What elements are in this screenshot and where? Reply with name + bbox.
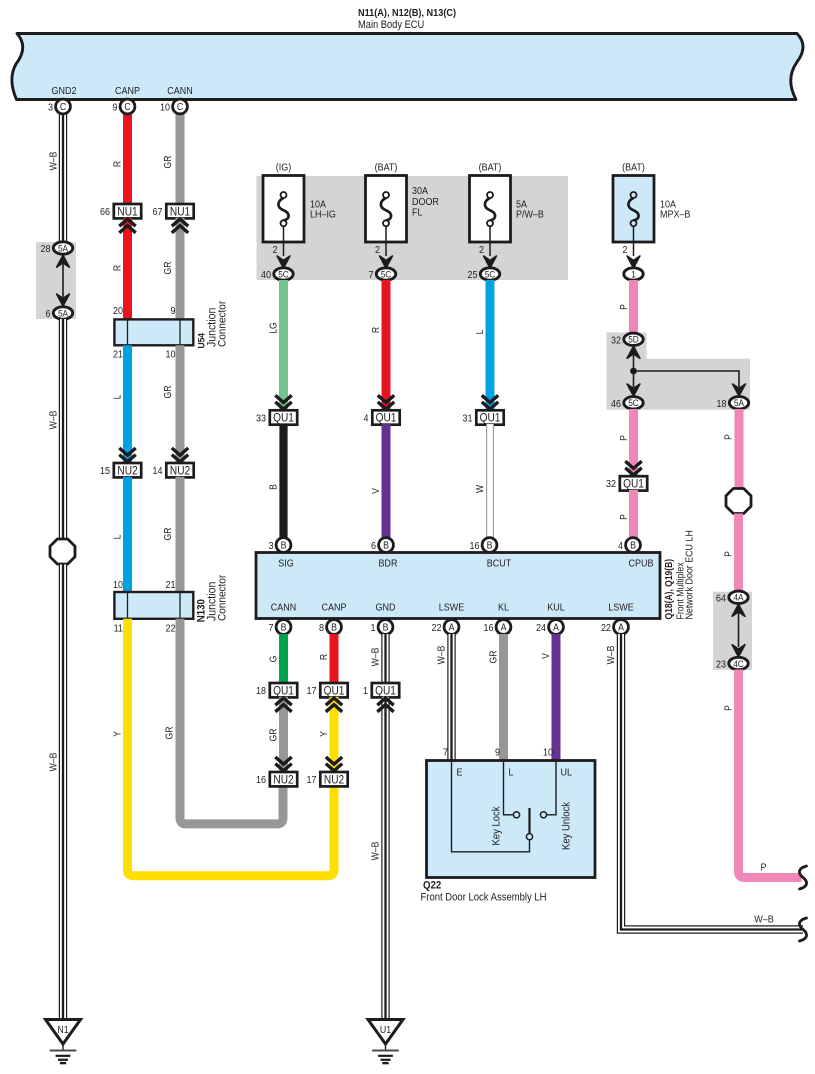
chevron arrows up below NU1 xyxy=(172,219,188,233)
svg-text:P: P xyxy=(619,304,630,310)
svg-text:V: V xyxy=(541,652,552,659)
link line from junction dot right and down to 18 5A xyxy=(634,371,740,387)
ECU label CANP xyxy=(322,602,347,614)
wire label R xyxy=(112,161,123,168)
svg-text:20: 20 xyxy=(113,306,123,318)
ECU label GND xyxy=(376,602,396,614)
ECU pin 4 B CPUB xyxy=(618,538,640,553)
svg-text:KL: KL xyxy=(498,602,510,614)
svg-text:5D: 5D xyxy=(628,334,639,345)
label 10A MPX-B xyxy=(660,199,690,221)
svg-text:33: 33 xyxy=(256,413,266,425)
ECU pin 1 B GND xyxy=(371,620,393,635)
svg-text:8: 8 xyxy=(319,623,324,635)
connector 7 5C oval xyxy=(369,268,396,281)
fuse 5A P/W-B xyxy=(470,176,511,257)
label (BAT) xyxy=(622,162,645,174)
connector 18 5A oval xyxy=(717,397,749,410)
svg-text:L: L xyxy=(112,535,123,540)
ECU pin 22 A LSWE xyxy=(432,620,459,635)
svg-text:30A: 30A xyxy=(412,185,429,197)
svg-text:P: P xyxy=(723,434,734,440)
svg-text:22: 22 xyxy=(601,623,611,635)
svg-text:NU1: NU1 xyxy=(117,206,137,219)
svg-text:32: 32 xyxy=(606,479,616,491)
svg-text:1: 1 xyxy=(631,269,636,280)
wire label W-B xyxy=(48,411,59,430)
svg-text:W–B: W–B xyxy=(370,648,381,667)
fuse 10A MPX-B xyxy=(613,176,654,257)
svg-text:V: V xyxy=(371,487,382,494)
wire label Y xyxy=(319,731,330,737)
label 5A P/W-B xyxy=(516,199,544,221)
Q22 internal wire E to switch common xyxy=(452,761,530,852)
svg-text:Main Body ECU: Main Body ECU xyxy=(358,20,424,32)
label (BAT) xyxy=(479,162,502,174)
label Key Unlock xyxy=(561,801,573,850)
svg-text:QU1: QU1 xyxy=(375,685,396,698)
label N11(A), N12(B), N13(C) Main Body ECU xyxy=(358,8,456,32)
svg-text:N1: N1 xyxy=(57,1023,68,1035)
wire label L xyxy=(112,395,123,400)
svg-text:QU1: QU1 xyxy=(623,478,644,491)
ECU label BDR xyxy=(379,558,398,570)
svg-text:W–B: W–B xyxy=(606,646,617,665)
svg-text:5A: 5A xyxy=(58,308,68,319)
connector 46 5C oval xyxy=(611,397,643,410)
connector 17 NU2 xyxy=(307,772,348,786)
switch movable contact bar xyxy=(528,808,530,834)
arrow down into oval 1 xyxy=(627,256,640,268)
svg-text:(BAT): (BAT) xyxy=(479,162,502,174)
arrow up into 4A xyxy=(732,604,745,616)
svg-text:3: 3 xyxy=(48,102,53,114)
connector 28 5A oval xyxy=(41,242,73,255)
svg-text:R: R xyxy=(371,327,382,334)
svg-text:GR: GR xyxy=(163,155,174,168)
connector 33 QU1 xyxy=(256,410,297,424)
label N130 Junction Connector xyxy=(196,574,229,622)
svg-text:16: 16 xyxy=(484,623,494,635)
svg-text:R: R xyxy=(112,265,123,272)
svg-text:CANP: CANP xyxy=(322,602,347,614)
svg-text:B: B xyxy=(331,621,337,633)
chevron arrows up below 18 QU1 xyxy=(275,698,291,712)
svg-text:22: 22 xyxy=(166,623,176,635)
svg-text:GR: GR xyxy=(163,261,174,274)
svg-text:LSWE: LSWE xyxy=(608,602,633,614)
svg-text:P: P xyxy=(723,551,734,557)
wire W from 31 QU1 to ECU pin 16 BCUT xyxy=(486,424,494,538)
gray background panel left 5A connector pair xyxy=(36,242,76,319)
Q22 pin label L xyxy=(509,767,515,779)
svg-text:5C: 5C xyxy=(628,398,639,409)
wire label LG xyxy=(268,322,279,334)
connector 15 NU2 xyxy=(100,463,141,477)
svg-text:SIG: SIG xyxy=(278,558,293,570)
svg-text:C: C xyxy=(124,101,131,113)
ground N1 xyxy=(46,1020,81,1064)
svg-text:P: P xyxy=(761,862,767,874)
svg-text:W: W xyxy=(475,485,486,493)
wire label GR xyxy=(163,527,174,540)
Q22 pin label E xyxy=(457,767,463,779)
svg-text:10: 10 xyxy=(166,349,176,361)
wire R from 66 NU1 to junction connector U54 pin 20 xyxy=(123,218,132,320)
band pin label CANN xyxy=(167,86,192,98)
svg-text:QU1: QU1 xyxy=(480,412,501,425)
svg-text:14: 14 xyxy=(153,466,164,478)
key unlock contact circle xyxy=(540,812,546,818)
chevron arrows up below 17 QU1 xyxy=(326,698,342,712)
svg-text:66: 66 xyxy=(100,207,110,219)
svg-text:18: 18 xyxy=(256,686,266,698)
svg-text:5C: 5C xyxy=(485,269,496,280)
inter-connector link line xyxy=(62,262,64,297)
ECU pin 24 A KUL xyxy=(536,620,563,635)
svg-text:QU1: QU1 xyxy=(376,412,397,425)
wire W-B from ECU pin 22 LSWE to Q22 pin 7 xyxy=(447,634,455,761)
junction connector U54 xyxy=(114,319,193,345)
wire GR from 67 NU1 to junction connector U54 pin 9 xyxy=(176,218,185,320)
svg-text:4: 4 xyxy=(618,541,624,553)
wire label GR xyxy=(268,728,279,741)
gray background panel 4A/4C connector pair xyxy=(713,592,752,670)
wire label W-B xyxy=(370,842,381,861)
inter-connector link line xyxy=(738,611,740,647)
wire label W-B xyxy=(606,646,617,665)
wire W-B from 1 QU1 down to ground U1 xyxy=(381,697,389,1020)
svg-text:W–B: W–B xyxy=(436,646,447,665)
Front Multiplex Network Door ECU LH block Q18(A) Q19(B) xyxy=(256,553,660,619)
svg-text:C: C xyxy=(177,101,184,113)
wire label GR xyxy=(164,726,175,739)
svg-text:11: 11 xyxy=(114,623,123,635)
wire label W-B xyxy=(370,648,381,667)
chevron arrows up below 1 QU1 xyxy=(377,698,393,712)
chevron arrows down above 33 QU1 xyxy=(275,395,291,409)
svg-text:NU2: NU2 xyxy=(324,774,344,787)
wire label B xyxy=(268,484,279,490)
svg-text:16: 16 xyxy=(256,775,266,787)
svg-text:2: 2 xyxy=(375,245,380,257)
wire V from 4 QU1 to ECU pin 6 BDR xyxy=(382,424,391,538)
svg-text:32: 32 xyxy=(611,335,621,347)
wire W-B from GND2 pin 3 down to connector 28 5A xyxy=(59,107,67,242)
wire label W-B (horizontal) xyxy=(754,914,773,926)
svg-text:Connector: Connector xyxy=(216,300,229,347)
svg-text:A: A xyxy=(501,621,508,633)
label (IG) xyxy=(276,162,291,174)
svg-text:A: A xyxy=(449,621,456,633)
wire GR from CANN pin 10 to connector 67 NU1 xyxy=(176,107,185,204)
svg-text:(BAT): (BAT) xyxy=(622,162,645,174)
wire P from 32 QU1 to ECU pin 4 CPUB xyxy=(629,490,638,538)
svg-text:CANP: CANP xyxy=(115,86,140,98)
pin number 21 (U54 bottom left) xyxy=(113,349,123,361)
svg-text:31: 31 xyxy=(463,413,473,425)
wire L from U54 pin 21 to connector 15 NU2 xyxy=(123,345,132,463)
wire label P xyxy=(619,514,630,520)
pin 9 C (CANP) xyxy=(113,99,135,114)
svg-text:P: P xyxy=(619,435,630,441)
connector 32 5D oval xyxy=(611,333,643,346)
svg-text:CANN: CANN xyxy=(167,86,192,98)
wire label L xyxy=(475,330,486,335)
arrow down into 6 5A xyxy=(57,294,70,306)
wire V from ECU pin 24 KUL to Q22 pin 10 xyxy=(552,634,561,761)
svg-text:P/W–B: P/W–B xyxy=(516,209,544,221)
ECU label KUL xyxy=(547,602,565,614)
pin number 10 (U54 bottom right) xyxy=(166,349,176,361)
svg-text:B: B xyxy=(268,484,279,490)
svg-text:15: 15 xyxy=(100,466,110,478)
svg-text:CANN: CANN xyxy=(271,602,296,614)
svg-text:5C: 5C xyxy=(278,269,289,280)
svg-text:Key Unlock: Key Unlock xyxy=(561,801,573,850)
svg-text:B: B xyxy=(630,539,636,551)
connector 1 oval xyxy=(624,268,643,280)
arrow down into 46 5C xyxy=(627,384,640,396)
svg-text:E: E xyxy=(457,767,463,779)
gray background panel 5D/5C/5A connector group xyxy=(607,332,751,409)
wire label R xyxy=(319,654,330,661)
wire W-B from 6 5A down to splice octagon xyxy=(59,319,67,539)
wire label P xyxy=(619,304,630,310)
svg-text:N11(A), N12(B), N13(C): N11(A), N12(B), N13(C) xyxy=(358,8,456,20)
svg-text:10: 10 xyxy=(160,102,170,114)
wire label GR xyxy=(163,385,174,398)
svg-text:4A: 4A xyxy=(733,592,743,603)
wire label V xyxy=(371,487,382,494)
svg-text:21: 21 xyxy=(113,349,123,361)
svg-text:W–B: W–B xyxy=(48,152,59,171)
svg-text:5A: 5A xyxy=(734,398,744,409)
svg-text:7: 7 xyxy=(443,747,448,759)
wire label P (horizontal) xyxy=(761,862,767,874)
svg-text:24: 24 xyxy=(536,623,547,635)
arrow up into 5D xyxy=(627,346,640,358)
wire Y from N130 pin 11 down right up to connector 17 NU2 xyxy=(128,619,335,876)
ECU label SIG xyxy=(278,558,293,570)
wire label W-B xyxy=(48,152,59,171)
connector 32 QU1 xyxy=(606,476,647,490)
svg-text:GR: GR xyxy=(268,728,279,741)
arrow down into 18 5A xyxy=(733,384,746,396)
svg-text:QU1: QU1 xyxy=(324,685,345,698)
svg-text:64: 64 xyxy=(716,593,727,605)
connector 40 5C oval xyxy=(261,268,293,281)
chevron arrows down above NU2 xyxy=(119,448,135,462)
connector 31 QU1 xyxy=(463,410,504,424)
svg-text:L: L xyxy=(112,395,123,400)
connector 66 NU1 xyxy=(100,204,141,218)
wire label GR xyxy=(163,261,174,274)
svg-text:QU1: QU1 xyxy=(273,412,294,425)
wire label W xyxy=(475,485,486,493)
svg-text:Connector: Connector xyxy=(216,574,229,621)
Q22 internal wire UL to key unlock contact xyxy=(547,761,556,815)
connector 4 QU1 xyxy=(364,410,400,424)
ECU pin 3 B SIG xyxy=(269,538,291,553)
svg-text:1: 1 xyxy=(371,623,376,635)
wire label V xyxy=(541,652,552,659)
ECU pin 22 A LSWE (right) xyxy=(601,620,628,635)
svg-text:10: 10 xyxy=(543,747,553,759)
pin number 10 (N130 top left) xyxy=(113,580,123,592)
wire P from oval 1 down to connector 32 5D xyxy=(629,280,638,334)
connector 64 4A oval xyxy=(716,591,748,604)
svg-text:W–B: W–B xyxy=(48,411,59,430)
pin number 20 (U54 top left) xyxy=(113,306,123,318)
svg-text:9: 9 xyxy=(113,102,118,114)
fuse pin 2 label xyxy=(273,245,278,257)
wire GR from 14 NU2 to junction connector N130 pin 21 xyxy=(176,477,185,592)
label Q18(A), Q19(B) Front Multiplex Network Door ECU LH xyxy=(664,530,696,619)
svg-text:22: 22 xyxy=(432,623,442,635)
svg-text:LSWE: LSWE xyxy=(439,602,464,614)
svg-text:16: 16 xyxy=(470,541,480,553)
pin number 10 (Q22 UL) xyxy=(543,747,553,759)
svg-text:BCUT: BCUT xyxy=(487,558,512,570)
connector 18 QU1 xyxy=(256,683,297,697)
wire L from 25 5C to connector 31 QU1 xyxy=(486,280,495,410)
svg-text:17: 17 xyxy=(307,775,317,787)
svg-text:LH–IG: LH–IG xyxy=(310,209,336,221)
wire L from 15 NU2 to junction connector N130 pin 10 xyxy=(123,477,132,592)
connector 14 NU2 xyxy=(153,463,194,477)
ECU pin 7 B CANN xyxy=(269,620,291,635)
svg-text:L: L xyxy=(475,330,486,335)
svg-text:W–B: W–B xyxy=(754,914,773,926)
svg-text:R: R xyxy=(112,161,123,168)
ECU label LSWE (right) xyxy=(608,602,633,614)
junction dot xyxy=(630,368,637,375)
svg-text:2: 2 xyxy=(273,245,278,257)
svg-text:4: 4 xyxy=(364,413,370,425)
break squiggle on W-B wire xyxy=(799,918,806,941)
wire GR from ECU pin 16 KL to Q22 pin 9 xyxy=(499,634,508,761)
splice octagon on W-B xyxy=(50,539,75,564)
pin 10 C (CANN) xyxy=(160,99,187,114)
connector 25 5C oval xyxy=(468,268,500,281)
Q22 Front Door Lock Assembly LH block xyxy=(427,761,596,878)
svg-text:23: 23 xyxy=(716,659,726,671)
arrow down into 25 5C xyxy=(484,256,497,268)
svg-text:CPUB: CPUB xyxy=(629,558,654,570)
pin number 9 (Q22 L) xyxy=(495,747,500,759)
fuse pin 2 label xyxy=(375,245,380,257)
svg-text:2: 2 xyxy=(479,245,484,257)
svg-text:17: 17 xyxy=(307,686,317,698)
wire label GR xyxy=(488,650,499,663)
wire R from ECU pin 8 CANP to connector 17 QU1 xyxy=(330,634,339,683)
svg-text:L: L xyxy=(509,767,515,779)
svg-text:Key Lock: Key Lock xyxy=(491,806,503,846)
svg-text:GR: GR xyxy=(164,726,175,739)
ECU pin 8 B CANP xyxy=(319,620,341,635)
key lock contact circle xyxy=(513,812,519,818)
ECU label LSWE xyxy=(439,602,464,614)
ECU pin 6 B BDR xyxy=(371,538,393,553)
svg-text:1: 1 xyxy=(363,686,368,698)
svg-text:B: B xyxy=(281,621,287,633)
svg-text:GR: GR xyxy=(488,650,499,663)
wire label W-B xyxy=(48,753,59,772)
svg-text:KUL: KUL xyxy=(547,602,565,614)
fuse pin 2 label xyxy=(479,245,484,257)
wire W-B from ECU pin 22 LSWE right down then right to edge xyxy=(621,634,803,930)
svg-text:P: P xyxy=(723,705,734,711)
svg-text:NU2: NU2 xyxy=(170,465,190,478)
svg-text:7: 7 xyxy=(369,270,374,282)
connector 16 NU2 xyxy=(256,772,297,786)
svg-text:40: 40 xyxy=(261,270,271,282)
svg-text:GR: GR xyxy=(163,527,174,540)
pin number 21 (N130 top right) xyxy=(166,580,176,592)
svg-text:67: 67 xyxy=(153,207,163,219)
svg-text:Network Door ECU LH: Network Door ECU LH xyxy=(684,530,696,619)
svg-text:4C: 4C xyxy=(733,658,744,669)
svg-text:LG: LG xyxy=(268,322,279,334)
svg-text:A: A xyxy=(618,621,625,633)
pin number 7 (Q22 E) xyxy=(443,747,448,759)
svg-text:G: G xyxy=(268,656,279,663)
svg-text:QU1: QU1 xyxy=(273,685,294,698)
connector 67 NU1 xyxy=(153,204,194,218)
wire P from 18 5A down to splice octagon xyxy=(735,409,744,489)
connector 23 4C oval xyxy=(716,657,748,670)
fuse 30A DOOR FL xyxy=(366,176,407,257)
pin number 22 (N130 bottom right) xyxy=(166,623,176,635)
svg-text:3: 3 xyxy=(269,541,274,553)
svg-text:(IG): (IG) xyxy=(276,162,291,174)
wire label R xyxy=(112,265,123,272)
svg-text:R: R xyxy=(319,654,330,661)
wire label P xyxy=(723,705,734,711)
wire P from 23 4C down then right to edge xyxy=(739,670,802,878)
wire GR from U54 pin 10 to connector 14 NU2 xyxy=(176,345,185,463)
gray background panel behind fuses 10A LH-IG / 30A DOOR FL / 5A P/W-B xyxy=(257,176,569,280)
band pin label CANP xyxy=(115,86,140,98)
wire label GR xyxy=(163,155,174,168)
svg-text:GR: GR xyxy=(163,385,174,398)
svg-text:9: 9 xyxy=(171,306,176,318)
svg-text:Y: Y xyxy=(319,731,330,737)
connector 1 QU1 xyxy=(363,683,399,697)
svg-text:Front Door Lock Assembly LH: Front Door Lock Assembly LH xyxy=(421,892,547,904)
label 10A LH-IG xyxy=(310,199,336,221)
chevron arrows down above 32 QU1 xyxy=(625,461,641,475)
wire G from ECU pin 7 CANN to connector 18 QU1 xyxy=(279,634,288,683)
chevron arrows up below NU1 xyxy=(119,219,135,233)
ground U1 xyxy=(368,1020,403,1064)
svg-text:B: B xyxy=(383,539,389,551)
wire B from 33 QU1 to ECU pin 3 SIG xyxy=(279,424,287,538)
arrow down into 23 4C xyxy=(732,645,745,657)
svg-text:A: A xyxy=(553,621,560,633)
wire R from 7 5C to connector 4 QU1 xyxy=(382,280,391,410)
svg-text:UL: UL xyxy=(561,767,573,779)
ECU label BCUT xyxy=(487,558,512,570)
wire P from 46 5C down to connector 32 QU1 xyxy=(629,409,638,476)
wire label P xyxy=(619,435,630,441)
fuse 10A LH-IG xyxy=(263,176,304,257)
svg-text:B: B xyxy=(281,539,287,551)
pin number 9 (U54 top right) xyxy=(171,306,176,318)
svg-text:NU2: NU2 xyxy=(273,774,293,787)
chevron arrows down above 17 NU2 xyxy=(326,757,342,771)
